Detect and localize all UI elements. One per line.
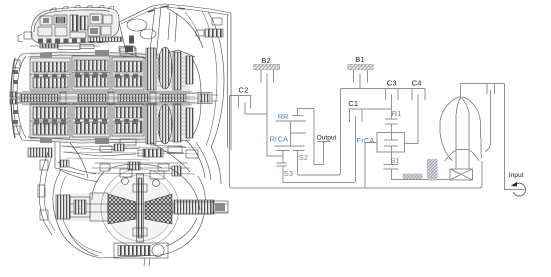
spider pinion shaft vertical bbox=[137, 174, 144, 242]
diff extra arcs bbox=[166, 168, 200, 246]
sun S3 mesh plates bbox=[276, 162, 287, 164]
clutch C2 right plate bbox=[250, 95, 252, 108]
wire S3 plate down bbox=[282, 166, 284, 182]
clutch C3 right plate bbox=[397, 89, 399, 100]
svg-text:Input: Input bbox=[509, 172, 524, 179]
transition bolt bbox=[143, 149, 163, 157]
torque converter top line bbox=[461, 83, 505, 85]
valve body parts row 1 bbox=[40, 16, 52, 25]
clutch C3 middle plate bbox=[391, 95, 393, 119]
clutch C4 left plate bbox=[411, 89, 413, 100]
clutch C4 right corner plate bbox=[424, 89, 426, 100]
drum mid dark blocks lower bbox=[34, 119, 138, 125]
brake B2 middle plate / wire down bbox=[267, 73, 283, 156]
bell housing inner slants bbox=[149, 6, 161, 60]
converter bell left lobe bbox=[440, 97, 461, 161]
svg-text:Output: Output bbox=[317, 135, 337, 142]
svg-text:FrCA: FrCA bbox=[357, 136, 375, 145]
output gear stem bbox=[323, 141, 325, 164]
top cover bolts bbox=[50, 6, 114, 12]
wire RR to output drum bbox=[298, 109, 314, 116]
wire B1 to S2 down bbox=[338, 89, 341, 176]
stator top bar bbox=[456, 149, 469, 151]
main case top edge bbox=[22, 50, 195, 57]
ring RR rim plate bbox=[292, 115, 303, 117]
one-way clutch box bbox=[450, 169, 473, 180]
lower clutch pack 1 bbox=[30, 104, 70, 138]
clutch C1 left plate bbox=[348, 109, 350, 122]
slope small tabs bbox=[148, 6, 185, 12]
lower clutch pack 2 bbox=[72, 104, 110, 137]
transition bracket bbox=[55, 142, 85, 175]
shaft right coupling bbox=[198, 93, 212, 104]
clutch C4 middle plate to carrier bbox=[405, 95, 419, 144]
brake B1 middle plate bbox=[359, 73, 361, 88]
wire S1 to case ground bbox=[392, 169, 450, 180]
clutch C1 right plate bbox=[361, 109, 363, 122]
output drum bottom bbox=[314, 164, 324, 166]
wire pinion vertical bbox=[290, 121, 292, 146]
bell housing inner curve bbox=[208, 12, 224, 147]
upper sprocket tall bbox=[146, 48, 156, 90]
output gear bar bbox=[317, 140, 330, 142]
wire FrCA riser bbox=[364, 143, 367, 188]
ring gear R1 mesh plates bbox=[385, 118, 397, 120]
svg-text:S3: S3 bbox=[284, 169, 293, 178]
svg-text:S1: S1 bbox=[390, 156, 399, 165]
left wall dark edge bbox=[11, 58, 15, 138]
output drum left wall bbox=[313, 109, 315, 165]
drum mid dark blocks upper bbox=[34, 73, 138, 79]
converter shell stem bbox=[460, 84, 462, 98]
separator plate dark squares bbox=[38, 39, 103, 44]
svg-text:C3: C3 bbox=[387, 79, 397, 88]
differential housing bbox=[53, 172, 206, 258]
brake B2 right plate bbox=[273, 70, 275, 82]
case ground hatched block tall bbox=[427, 159, 437, 181]
transition curves bbox=[150, 140, 205, 178]
clutch C1 middle plate down to S3 wire bbox=[353, 116, 356, 182]
clutch C2 middle plate bbox=[245, 103, 267, 114]
diff top parts bbox=[120, 169, 132, 177]
svg-text:S2: S2 bbox=[299, 153, 308, 162]
clutch C3 left plate bbox=[385, 89, 387, 100]
left flange bbox=[39, 152, 52, 235]
left output stack bbox=[56, 195, 70, 219]
wire FrCA left link bbox=[365, 142, 377, 144]
input shaft wire right bbox=[505, 84, 525, 190]
svg-text:C2: C2 bbox=[238, 85, 248, 94]
clutch C2 left plate bbox=[238, 95, 240, 108]
pack fine texture bbox=[31, 58, 186, 134]
background washes bbox=[30, 9, 190, 242]
bell housing right edge bbox=[228, 13, 232, 150]
transition webbing bbox=[58, 162, 98, 182]
clutch C2 drum wire left bbox=[230, 95, 233, 187]
axle spline ticks bbox=[176, 202, 214, 214]
right output shaft bbox=[174, 200, 214, 214]
brake B1 right plate bbox=[367, 70, 369, 82]
upper rods toward bell bbox=[88, 37, 122, 42]
shaft zone texture bbox=[18, 94, 195, 103]
turbine nose left side bbox=[456, 97, 461, 169]
brake B1 hatched bar bbox=[348, 64, 374, 69]
bell housing top slope bbox=[119, 4, 231, 22]
lower small parts bbox=[95, 138, 109, 144]
one-way clutch cross bbox=[450, 169, 473, 180]
upper small parts row bbox=[120, 48, 136, 55]
right bevel gear bbox=[145, 194, 172, 224]
wire S2 left plate to S3 bbox=[282, 151, 284, 164]
valve body parts row 2 bbox=[38, 27, 52, 36]
case ground hatched block small bbox=[403, 173, 423, 179]
main shaft bbox=[16, 93, 198, 103]
left bevel gear bbox=[108, 194, 136, 224]
diff upper housing band bbox=[90, 163, 195, 174]
converter bell right lobe bbox=[462, 97, 482, 159]
wire R1 to carrier box bbox=[391, 124, 393, 140]
upper clutch pack 1 bbox=[30, 58, 70, 90]
svg-text:B1: B1 bbox=[355, 55, 365, 64]
wire S2 plate down bbox=[297, 151, 299, 176]
transition texture lines bbox=[60, 146, 200, 160]
lock-up clutch right plate bbox=[493, 84, 495, 95]
transition hatched rod bbox=[28, 148, 52, 157]
ring gear bbox=[101, 169, 179, 247]
left wall nubs bbox=[13, 70, 18, 124]
sun S1 mesh plates bbox=[384, 164, 398, 166]
schematic blue labels bbox=[270, 109, 402, 178]
stator right wing bbox=[469, 150, 479, 161]
oil pipes bbox=[127, 19, 147, 31]
wire S2 horizontal bbox=[298, 174, 339, 176]
main case left wall bbox=[13, 54, 22, 140]
lower sprocket tall bbox=[146, 104, 156, 144]
upper clutch pack 2 bbox=[72, 56, 110, 90]
bottom cylinder bbox=[114, 243, 168, 258]
wire bottom rail bbox=[231, 187, 480, 189]
pinion mid bar bbox=[291, 132, 307, 134]
carrier FrCA box bbox=[377, 132, 405, 152]
schematic black labels bbox=[238, 55, 421, 108]
brake B1 left plate bbox=[353, 70, 355, 82]
brake B2 left plate bbox=[260, 70, 262, 82]
clutch C1 top bar bbox=[349, 108, 392, 110]
spline tick rows bbox=[22, 92, 192, 105]
stator left wing bbox=[445, 150, 456, 161]
lock-up clutch left plate bbox=[486, 84, 488, 95]
cover left bracket bbox=[24, 32, 32, 39]
parking gear right bbox=[186, 56, 193, 84]
svg-text:C1: C1 bbox=[348, 99, 358, 108]
wire pinion to sun S1 bbox=[391, 146, 393, 165]
wire B1 drum line bbox=[340, 88, 425, 90]
clutch C2 top bar bbox=[229, 94, 251, 96]
lock-up clutch middle plate bbox=[485, 90, 491, 151]
upper clutch pack 3 bbox=[112, 57, 144, 90]
svg-text:R1: R1 bbox=[392, 109, 402, 118]
main case bottom edge bbox=[22, 140, 190, 143]
carrier RrCA bar bbox=[275, 145, 305, 147]
turbine nose right side bbox=[461, 97, 469, 169]
svg-text:B2: B2 bbox=[261, 56, 271, 65]
converter housing dark bar bbox=[205, 29, 223, 37]
axle lines bbox=[58, 204, 228, 212]
rear gearset: sun S2 mesh plates bbox=[276, 150, 290, 152]
input arrow head bbox=[511, 182, 518, 187]
svg-text:C4: C4 bbox=[412, 79, 422, 88]
input rotation arrow bbox=[513, 183, 525, 196]
wire rail to converter turbine bbox=[480, 161, 482, 188]
carrier pinion mesh plates bbox=[384, 139, 398, 141]
ring gear RR bar bbox=[276, 120, 307, 122]
lower clutch pack 3 bbox=[112, 104, 144, 136]
svg-text:RR: RR bbox=[278, 112, 289, 121]
svg-text:RrCA: RrCA bbox=[270, 135, 288, 144]
top cover outline bbox=[31, 7, 119, 44]
wire S3 horizontal to C1 bbox=[283, 181, 353, 183]
brake B2 hatched bar bbox=[254, 64, 280, 69]
manual valve rod bbox=[40, 44, 58, 48]
